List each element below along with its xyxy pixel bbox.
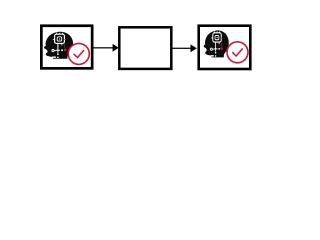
middle box — [119, 27, 171, 69]
arrow 2 — [172, 44, 196, 52]
head icon right — [204, 30, 229, 57]
left box — [41, 26, 92, 69]
arrow 1 — [94, 44, 119, 52]
right box — [199, 26, 251, 69]
checkmark badge left — [68, 43, 89, 64]
head icon left — [44, 32, 73, 59]
checkmark badge right — [227, 42, 248, 63]
